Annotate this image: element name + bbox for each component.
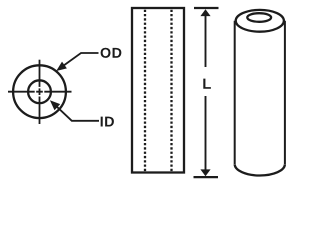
hidden line left (bore) [144,10,146,172]
L label [203,79,211,89]
end view inner circle (ID bore) [28,80,51,103]
hidden line right (bore) [170,10,172,172]
OD label [101,48,122,58]
cylinder outer top ellipse [236,10,284,32]
ID leader arrowhead [50,100,60,110]
cylinder left side [234,21,236,164]
centerline vertical top segment [39,60,41,87]
centerline vertical bottom segment [39,97,41,125]
ID label [101,117,114,127]
cylinder bottom arc [235,164,285,175]
cylinder bore ellipse [247,13,271,22]
dimension top cap [194,7,219,9]
cylinder right side [284,21,286,164]
center mark plus [36,88,43,95]
dimension bottom cap [194,176,219,178]
OD leader arrowhead [56,62,67,71]
OD leader line [63,53,99,66]
dimension top arrowhead [200,9,210,16]
dimension line lower segment [205,96,207,173]
dimension line upper segment [205,12,207,67]
centerline horizontal right segment [44,91,71,93]
ID leader line [56,106,99,121]
side view rectangle [132,8,184,173]
dimension bottom arrowhead [200,169,210,176]
end view outer circle (OD) [13,65,66,118]
centerline horizontal left segment [8,91,35,93]
